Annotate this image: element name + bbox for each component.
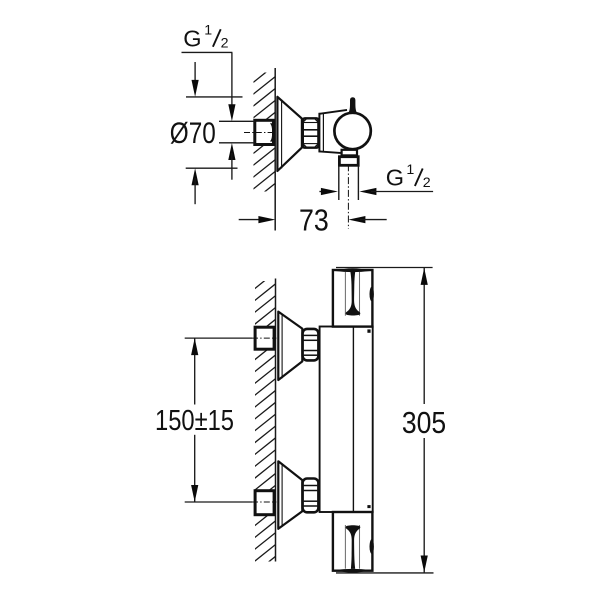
svg-text:1: 1 [204, 23, 212, 39]
svg-text:150±15: 150±15 [155, 405, 234, 437]
svg-text:305: 305 [402, 406, 446, 440]
svg-text:73: 73 [299, 204, 329, 238]
svg-text:2: 2 [221, 35, 229, 51]
svg-text:1: 1 [406, 162, 414, 178]
svg-text:Ø70: Ø70 [170, 117, 216, 150]
svg-text:2: 2 [423, 175, 431, 191]
svg-text:G: G [183, 26, 201, 52]
svg-text:G: G [386, 165, 404, 191]
